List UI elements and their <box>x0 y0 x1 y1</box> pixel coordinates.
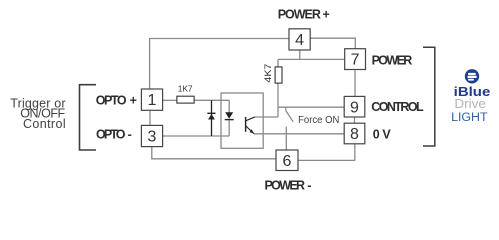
svg-text:+: + <box>323 8 330 22</box>
svg-text:8: 8 <box>350 126 359 143</box>
svg-text:3: 3 <box>148 129 157 146</box>
svg-text:Force ON: Force ON <box>298 115 339 126</box>
svg-text:CONTROL: CONTROL <box>371 100 424 114</box>
svg-text:0V: 0V <box>373 127 392 141</box>
svg-text:7: 7 <box>351 52 360 69</box>
svg-text:1K7: 1K7 <box>178 84 193 94</box>
svg-text:Drive: Drive <box>454 97 486 111</box>
svg-text:POWER: POWER <box>278 8 321 22</box>
svg-text:OPTO: OPTO <box>96 93 127 107</box>
svg-text:9: 9 <box>350 99 359 116</box>
svg-text:6: 6 <box>283 153 292 170</box>
svg-text:+: + <box>130 93 137 107</box>
svg-text:LIGHT: LIGHT <box>451 110 488 124</box>
svg-text:POWER: POWER <box>372 54 413 68</box>
svg-text:-: - <box>307 179 311 193</box>
svg-text:4K7: 4K7 <box>263 64 273 83</box>
svg-text:1: 1 <box>148 92 157 109</box>
svg-text:Control: Control <box>23 117 66 131</box>
svg-text:-: - <box>128 128 132 142</box>
svg-text:OPTO: OPTO <box>96 128 126 142</box>
svg-text:POWER: POWER <box>265 179 306 193</box>
svg-text:4: 4 <box>295 32 304 49</box>
